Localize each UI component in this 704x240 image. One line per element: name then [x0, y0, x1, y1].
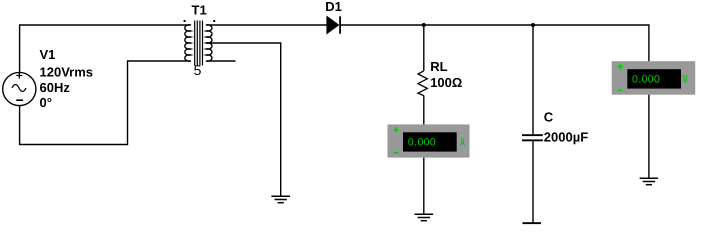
svg-text:V: V — [683, 74, 688, 86]
ammeter M1 plus terminal mark — [394, 127, 399, 132]
ammeter M1 display — [403, 132, 457, 151]
wire secondary center tap to ground — [206, 43, 280, 196]
svg-text:D1: D1 — [325, 0, 342, 14]
svg-text:2000µF: 2000µF — [544, 129, 588, 144]
svg-text:0.000: 0.000 — [408, 137, 436, 149]
voltmeter M2 display — [627, 69, 681, 88]
node junction dot C — [531, 23, 535, 27]
ground below voltmeter — [640, 178, 659, 185]
AC source V1 circle — [3, 72, 36, 105]
transformer T1 primary coil — [185, 25, 191, 61]
wire bottom loop V1 to T1 primary bottom — [20, 61, 191, 145]
wire diode cathode to right corner — [341, 25, 649, 61]
capacitor C bottom plate — [522, 139, 543, 141]
resistor RL zigzag — [418, 71, 427, 96]
V1 plus sign — [16, 73, 22, 79]
label V1 value block — [40, 47, 94, 110]
ground below ammeter — [415, 214, 434, 220]
wire top from V1 to T1 primary top — [20, 25, 191, 73]
voltmeter M2 minus terminal mark — [618, 90, 623, 92]
voltmeter M2 plus terminal mark — [618, 64, 623, 69]
svg-text:100Ω: 100Ω — [430, 75, 462, 90]
diode D1 triangle — [327, 17, 339, 34]
T1 polarity dot right — [213, 20, 215, 22]
V1 sine wave — [12, 85, 26, 92]
wire voltmeter to ground — [648, 95, 650, 178]
wire secondary top to diode — [206, 24, 327, 26]
svg-text:C: C — [544, 110, 554, 125]
node junction dot RL — [422, 23, 426, 27]
ground center tap — [271, 196, 290, 203]
wire RL to ammeter — [423, 96, 425, 125]
transformer T1 secondary coil — [206, 25, 212, 61]
wire capacitor to ground — [532, 141, 534, 222]
svg-text:RL: RL — [430, 59, 447, 74]
svg-text:5: 5 — [194, 62, 202, 78]
ground below capacitor (clipped) — [523, 222, 542, 224]
transformer T1 core lines — [195, 21, 203, 66]
svg-text:T1: T1 — [192, 3, 207, 18]
svg-text:0.000: 0.000 — [632, 74, 660, 86]
wire node to capacitor — [532, 25, 534, 134]
svg-text:A: A — [460, 137, 465, 149]
diode D1 cathode bar — [339, 16, 341, 33]
wire node to RL — [423, 25, 425, 71]
wire ammeter to ground — [423, 158, 425, 214]
T1 polarity dot left — [184, 20, 186, 22]
svg-text:120Vrms: 120Vrms — [40, 64, 94, 79]
svg-text:V1: V1 — [40, 47, 56, 62]
capacitor C top plate — [522, 134, 543, 136]
svg-text:60Hz: 60Hz — [40, 80, 71, 95]
ammeter M1 minus terminal mark — [394, 152, 399, 154]
wire secondary bottom stub — [206, 60, 235, 62]
svg-text:0°: 0° — [40, 95, 52, 110]
V1 minus sign — [16, 99, 23, 101]
voltmeter M2 body — [612, 61, 696, 94]
ammeter M1 body — [388, 124, 470, 157]
